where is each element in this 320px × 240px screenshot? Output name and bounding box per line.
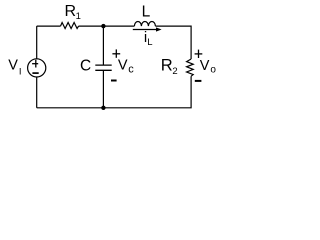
capacitor C plates [95, 65, 111, 70]
output minus sign [195, 80, 202, 82]
capacitor plus sign [112, 49, 120, 57]
svg-text:o: o [210, 65, 216, 76]
svg-text:L: L [147, 37, 152, 48]
source minus sign [32, 72, 38, 74]
svg-text:1: 1 [76, 11, 81, 22]
svg-text:C: C [80, 58, 91, 75]
capacitor minus sign [111, 80, 117, 82]
svg-text:R: R [65, 3, 77, 20]
resistor R1 [61, 23, 79, 29]
resistor R2 [187, 59, 194, 76]
current arrow i_L [133, 27, 162, 31]
wire source to top-left corner [36, 26, 38, 59]
svg-text:V: V [200, 58, 210, 74]
svg-text:L: L [142, 4, 151, 21]
voltage source V_I [28, 59, 46, 77]
node A (top junction dot) [101, 24, 105, 28]
wire L to top-right corner [155, 26, 191, 59]
svg-text:V: V [118, 58, 128, 74]
wire left bottom to source [36, 77, 38, 108]
wire R1 to node A [79, 25, 135, 27]
svg-text:c: c [128, 64, 134, 76]
svg-text:2: 2 [172, 66, 177, 77]
svg-text:V: V [8, 57, 18, 73]
wire top-left segment [37, 25, 61, 27]
wire node A down to capacitor [102, 26, 104, 65]
svg-text:R: R [161, 57, 173, 75]
source plus sign [32, 60, 38, 68]
bottom junction dot [101, 106, 105, 110]
wire R2 to bottom rail [37, 76, 191, 108]
inductor L [134, 22, 155, 27]
output plus sign [195, 50, 203, 58]
svg-text:I: I [19, 67, 22, 78]
wire capacitor to bottom node [102, 71, 104, 108]
